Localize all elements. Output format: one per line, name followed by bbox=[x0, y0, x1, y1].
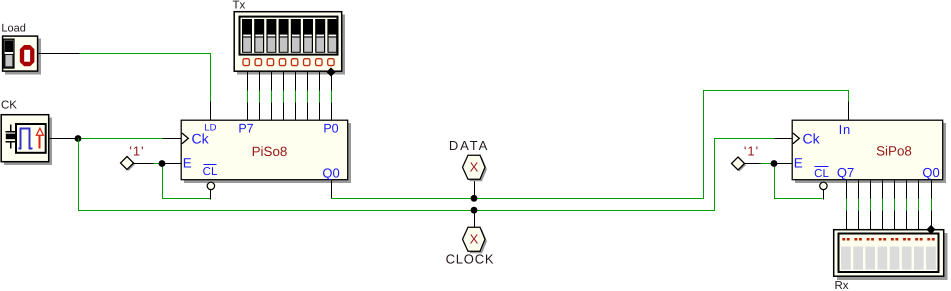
switch bank Tx: switch bit 7 (position 0) bbox=[242, 19, 252, 53]
switch Load: slide switch (position 0) bbox=[4, 39, 14, 68]
probe DATA: hexagon bbox=[463, 155, 488, 181]
wire SiPo8 Q5 to Rx bit 5 bbox=[870, 181, 872, 230]
probe CLOCK: hexagon bbox=[463, 227, 488, 253]
svg-text:CL: CL bbox=[203, 166, 218, 178]
switch bank Tx: LED indicator bit 7 bbox=[243, 59, 249, 66]
display Rx: bar segment bit 5 bbox=[865, 238, 875, 270]
U1 PiSo8: CL pin bubble bbox=[207, 182, 214, 189]
wire SiPo8 Q7 to Rx bit 7 bbox=[846, 181, 848, 230]
svg-text:'1': '1' bbox=[129, 144, 144, 159]
wire SiPo8 Ck pin stub bbox=[775, 138, 793, 140]
display Rx: bar segment bit 3 bbox=[890, 238, 900, 270]
switch bank Tx: switch bit 5 (position 0) bbox=[266, 19, 276, 53]
switch bank Tx: LED indicator bit 0 bbox=[328, 59, 334, 66]
svg-text:Q0: Q0 bbox=[922, 165, 939, 180]
wire '1' stub to E junction (left) bbox=[134, 163, 154, 165]
svg-text:CLOCK: CLOCK bbox=[446, 252, 495, 267]
wire branch to PiSo8 CL bubble (green) bbox=[163, 164, 211, 200]
switch bank Tx: body bbox=[234, 12, 345, 75]
U2 SiPo8: clock triangle on Ck pin bbox=[793, 133, 799, 144]
svg-text:P7: P7 bbox=[238, 122, 253, 136]
svg-text:X: X bbox=[470, 160, 479, 175]
wire '1' to PiSo8 E (green) bbox=[154, 163, 163, 165]
clock generator CK: waveform box bbox=[16, 124, 46, 153]
svg-text:CK: CK bbox=[1, 100, 17, 112]
wire branch to SiPo8 CL bubble (green) bbox=[775, 164, 824, 200]
svg-text:CL: CL bbox=[814, 168, 829, 180]
svg-text:X: X bbox=[470, 232, 479, 247]
switch bank Tx: LED indicator bit 5 bbox=[267, 59, 273, 66]
wire PiSo8 Q0 pin stub bbox=[331, 181, 333, 199]
svg-text:E: E bbox=[794, 155, 803, 170]
wire CLOCK rail (green) bbox=[79, 139, 775, 211]
U1 PiSo8: clock triangle on Ck pin bbox=[182, 133, 188, 144]
shift register U1 PiSo8: body bbox=[181, 120, 351, 183]
svg-text:In: In bbox=[839, 122, 851, 137]
wire DATA net (green) bbox=[332, 91, 849, 199]
probe DATA: stub wire bbox=[474, 180, 476, 199]
clock generator CK: body bbox=[1, 115, 52, 165]
wire CK to PiSo8 Ck (green) bbox=[79, 138, 163, 140]
wire Tx bit 1 to PiSo8 P1 bbox=[319, 72, 321, 121]
wire SiPo8 E pin stub bbox=[775, 163, 793, 165]
svg-text:Ck: Ck bbox=[803, 131, 821, 147]
wire SiPo8 Q6 to Rx bit 6 bbox=[858, 181, 860, 230]
U2 SiPo8: pin label CL (active low) bbox=[814, 167, 829, 180]
wire Tx bit 2 to PiSo8 P2 bbox=[307, 72, 309, 121]
wire Tx bit 0 to PiSo8 P0 bbox=[331, 72, 333, 121]
svg-text:Q7: Q7 bbox=[837, 165, 854, 180]
display Rx: bar segment bit 7 bbox=[841, 238, 851, 270]
wire PiSo8 E pin stub bbox=[163, 163, 182, 165]
switch bank Tx: LED indicator bit 6 bbox=[255, 59, 261, 66]
wire Tx bit 5 to PiSo8 P5 bbox=[271, 72, 273, 121]
wire Tx bit 7 to PiSo8 P7 bbox=[247, 72, 249, 121]
constant '1' for SiPo8 E: diamond bbox=[732, 157, 747, 172]
display Rx: bar segment bit 0 bbox=[926, 238, 936, 270]
svg-text:Rx: Rx bbox=[835, 280, 849, 291]
shift register U2 SiPo8: body bbox=[792, 120, 946, 183]
svg-text:PiSo8: PiSo8 bbox=[252, 144, 288, 159]
node DATA junction bbox=[471, 195, 478, 202]
wire SiPo8 Q2 to Rx bit 2 bbox=[906, 181, 908, 230]
switch bank Tx: switch bit 0 (position 0) bbox=[327, 19, 337, 53]
probe CLOCK: stub wire bbox=[474, 211, 476, 228]
wire SiPo8 Q3 to Rx bit 3 bbox=[894, 181, 896, 230]
wire Load output stub bbox=[39, 53, 80, 55]
wire SiPo8 Q4 to Rx bit 4 bbox=[882, 181, 884, 230]
svg-text:SiPo8: SiPo8 bbox=[876, 144, 912, 159]
switch bank Tx: switch bit 1 (position 0) bbox=[315, 19, 325, 53]
switch bank Tx: LED indicator bit 1 bbox=[316, 59, 322, 66]
switch bank Tx: switch bit 3 (position 0) bbox=[291, 19, 301, 53]
switch bank Tx: LED indicator bit 4 bbox=[279, 59, 285, 66]
junction on Tx pin 0 bbox=[326, 67, 335, 76]
svg-text:DATA: DATA bbox=[449, 138, 489, 153]
display Rx: bar segment bit 6 bbox=[853, 238, 863, 270]
node CLOCK junction bbox=[471, 207, 478, 214]
wire '1' to SiPo8 E (green) bbox=[761, 163, 775, 165]
U1 PiSo8: pin label CL (active low) bbox=[203, 165, 218, 178]
wire Load to PiSo8 LD (green) bbox=[80, 54, 211, 102]
constant '1' for PiSo8 E: diamond bbox=[121, 157, 136, 172]
clock generator CK: crystal symbol bbox=[6, 125, 16, 149]
display Rx: bar segment bit 1 bbox=[914, 238, 924, 270]
display Rx: bar segment bit 4 bbox=[878, 238, 888, 270]
U2 SiPo8: CL pin bubble bbox=[820, 182, 827, 189]
wire Tx bit 6 to PiSo8 P6 bbox=[259, 72, 261, 121]
node CK junction bbox=[75, 135, 82, 142]
wire PiSo8 LD pin stub bbox=[210, 102, 212, 121]
switch bank Tx: switch bit 6 (position 0) bbox=[254, 19, 264, 53]
wire SiPo8 In pin stub bbox=[848, 102, 850, 121]
svg-text:'1': '1' bbox=[744, 144, 759, 159]
svg-text:Load: Load bbox=[1, 23, 25, 35]
svg-text:E: E bbox=[183, 156, 192, 171]
switch Load: body bbox=[3, 36, 41, 74]
svg-text:Q0: Q0 bbox=[322, 165, 339, 180]
svg-text:Tx: Tx bbox=[233, 0, 246, 12]
svg-text:LD: LD bbox=[204, 123, 216, 134]
wire CK output stub bbox=[50, 138, 79, 140]
wire SiPo8 Q0 to Rx bit 0 bbox=[931, 181, 933, 230]
display Rx: body bbox=[834, 230, 948, 280]
node SiPo8 E junction bbox=[771, 160, 778, 167]
switch bank Tx: LED indicator bit 2 bbox=[304, 59, 310, 66]
clock generator CK: red edge arrow bbox=[36, 128, 43, 148]
switch bank Tx: LED indicator bit 3 bbox=[291, 59, 297, 66]
wire Tx bit 4 to PiSo8 P4 bbox=[283, 72, 285, 121]
wire '1' stub to E junction (right) bbox=[745, 163, 761, 165]
svg-text:P0: P0 bbox=[323, 122, 338, 136]
node PiSo8 E junction bbox=[159, 160, 166, 167]
clock generator CK: blue pulse waveform bbox=[19, 129, 33, 149]
wire PiSo8 Ck pin stub bbox=[163, 138, 182, 140]
switch bank Tx: switch bit 4 (position 0) bbox=[279, 19, 289, 53]
switch bank Tx: switch bit 2 (position 0) bbox=[303, 19, 313, 53]
junction on Rx input bit 0 bbox=[926, 225, 935, 234]
display Rx: bar segment bit 2 bbox=[902, 238, 912, 270]
wire Tx bit 3 to PiSo8 P3 bbox=[295, 72, 297, 121]
wire SiPo8 Q1 to Rx bit 1 bbox=[918, 181, 920, 230]
switch Load: seven-segment digit 0 bbox=[20, 45, 35, 66]
